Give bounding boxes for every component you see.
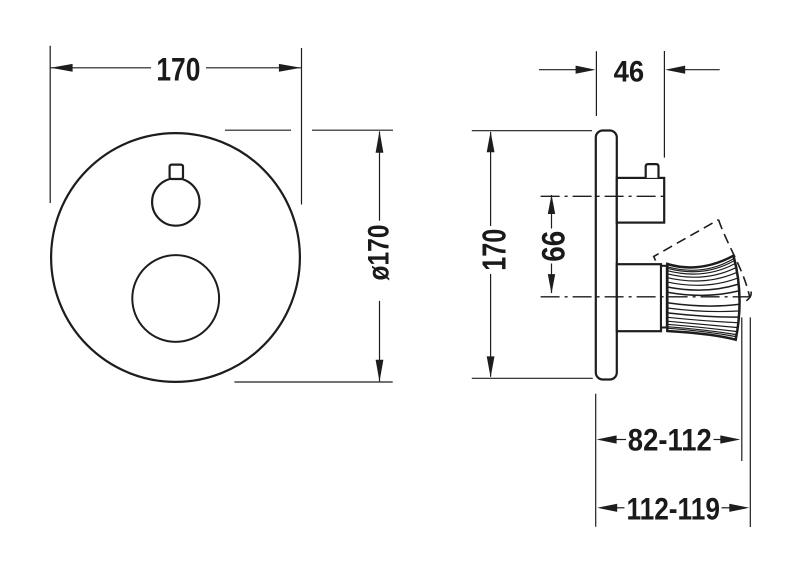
thermostat cartridge housing side view — [617, 178, 664, 223]
dim o170: dimension line — [379, 132, 381, 221]
dashed handle in tilted position (alternate position) — [654, 220, 750, 297]
arrowheads dim 82-112 — [597, 435, 617, 443]
upper centre line (cartridge axis, dash-dot) — [541, 195, 669, 197]
dim 112-119: dimension line — [616, 507, 625, 509]
arrowheads dim 170 height — [487, 131, 495, 152]
dashed handle tip tick — [746, 292, 751, 301]
dim 66: dimension line — [551, 195, 553, 229]
dim 46: dimension line tails — [539, 69, 577, 71]
svg-text:66: 66 — [535, 231, 571, 262]
arrowheads dim 66 — [548, 195, 555, 215]
small knob on cartridge housing — [646, 164, 659, 178]
bottom dims: handle face extension line — [741, 317, 743, 461]
escutcheon plate side view — [596, 131, 617, 380]
dim 82-112: dimension line — [615, 439, 626, 441]
svg-text:170: 170 — [156, 51, 200, 87]
escutcheon plate front view (large circle) — [51, 133, 300, 382]
arrowheads dim 46 — [576, 66, 596, 74]
valve body side view (lower) — [617, 264, 661, 331]
handle flute texture lines — [667, 259, 738, 337]
dim 46: right extension line — [663, 51, 665, 158]
temperature marker tab on thermostat knob — [170, 165, 183, 179]
bottom dims: left extension line (plate front face) — [595, 394, 597, 527]
thermostat knob front view (small upper circle) — [152, 178, 199, 225]
svg-text:82-112: 82-112 — [628, 422, 712, 458]
dim 170 width: left extension line — [49, 46, 51, 203]
svg-text:112-119: 112-119 — [626, 491, 720, 527]
volume control handle front view (large lower circle) — [132, 255, 219, 342]
svg-text:ø170: ø170 — [363, 225, 396, 281]
svg-text:46: 46 — [614, 55, 645, 88]
dim 170 height: bottom extension line — [472, 377, 593, 379]
dim 170 height: top extension line — [472, 130, 592, 132]
dim 170 width: right extension line — [301, 48, 303, 205]
svg-text:170: 170 — [476, 229, 513, 271]
bottom dims: tilted handle tip extension line — [749, 317, 751, 527]
arrowheads dim o170 — [376, 131, 384, 153]
arrowheads dim 112-119 — [597, 504, 617, 512]
dim 170 height: dimension line — [490, 132, 492, 226]
arrowheads dim 170 width — [51, 64, 73, 72]
handle collar ring — [661, 266, 667, 328]
dim o170: top tangent extension line — [225, 129, 291, 131]
lower centre line (handle axis, dash-dot) — [541, 296, 751, 298]
volume handle side view outline (flared knob) — [667, 256, 739, 340]
dim 46: left extension line — [595, 51, 597, 116]
dim 170 width: dimension line — [51, 67, 151, 69]
dim o170: bottom tangent extension line — [234, 381, 392, 383]
